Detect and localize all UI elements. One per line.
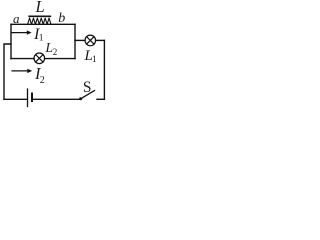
svg-text:L: L — [35, 0, 45, 16]
svg-text:S: S — [83, 79, 92, 96]
svg-text:L: L — [45, 40, 54, 55]
svg-text:1: 1 — [92, 55, 97, 65]
svg-text:b: b — [58, 11, 65, 26]
svg-text:2: 2 — [40, 75, 45, 86]
svg-text:1: 1 — [39, 34, 44, 44]
svg-text:a: a — [13, 11, 20, 26]
svg-text:2: 2 — [53, 47, 58, 57]
